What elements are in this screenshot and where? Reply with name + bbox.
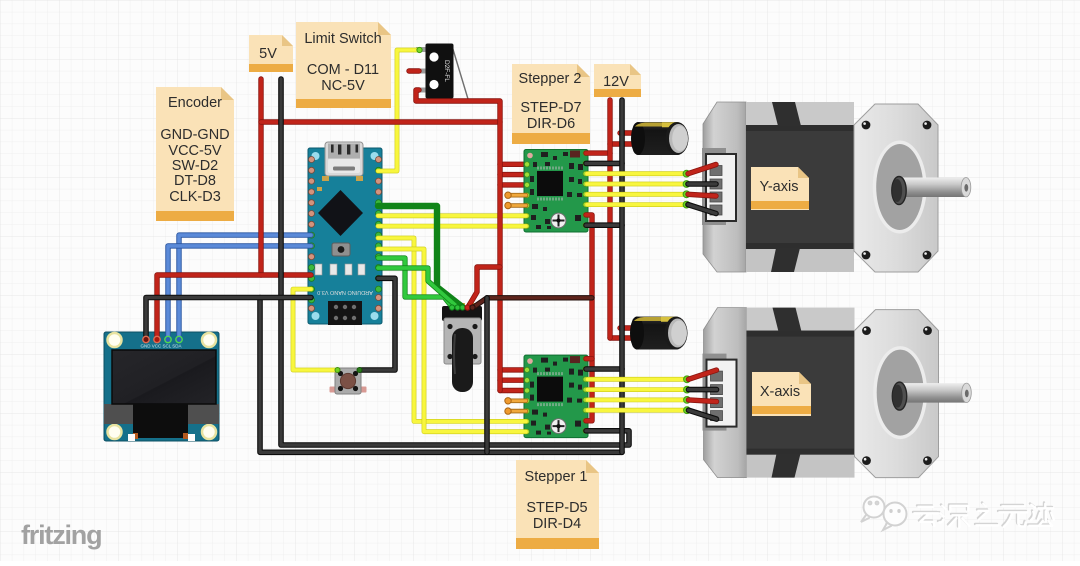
- driver chip: [537, 171, 563, 196]
- WeChat watermark icon: [861, 497, 907, 531]
- wire yellow nano D5 to driver U3 STEP: [378, 238, 526, 421]
- svg-text:COM - D11: COM - D11: [307, 62, 379, 78]
- trimpot on driver: [551, 213, 566, 228]
- motor body top face: [746, 102, 854, 126]
- wire red encoder VCC to bus: [468, 267, 501, 308]
- svg-text:DIR-D6: DIR-D6: [527, 116, 575, 132]
- svg-text:ARDUINO NANO V3.0: ARDUINO NANO V3.0: [317, 289, 373, 295]
- svg-text:DIR-D4: DIR-D4: [533, 516, 581, 532]
- rotary encoder ENC1: [442, 303, 482, 392]
- wire black nano to push button SW2: [360, 278, 395, 370]
- note label X-axis: [752, 372, 811, 416]
- wire black OLED GND branch bottom bus: [260, 298, 622, 453]
- wire end caps at push button corners: [335, 368, 340, 373]
- shaft end: [961, 178, 971, 197]
- note label Stepper 1: [516, 460, 599, 549]
- wire red driver U2 VMOT to 12V rail: [586, 152, 610, 154]
- electrolytic capacitor C2: [630, 317, 688, 350]
- MS jumper wires on driver: [508, 195, 526, 205]
- OLED display module: [104, 332, 219, 441]
- wire yellow nano D4 to driver U3 DIR: [378, 249, 526, 432]
- pin headers of U1 (left and right columns): [309, 157, 382, 312]
- driver pin pads: [525, 151, 589, 229]
- motor connector block: [706, 154, 736, 221]
- wire red driver U3 VMOT stub: [586, 358, 592, 360]
- note label Limit Switch: [296, 22, 391, 108]
- note label Encoder: [156, 87, 234, 221]
- ICSP header on U1: [328, 301, 362, 325]
- wire red 5V feed vertical: [260, 79, 262, 275]
- wire black encoder GND drop to bus: [486, 298, 488, 453]
- wire yellow motor phase leads from driver: [587, 174, 687, 205]
- wire red driver U2 to driver U3 link: [586, 215, 592, 421]
- svg-text:CLK-D3: CLK-D3: [169, 189, 221, 205]
- electrolytic capacitor C1 leads: [610, 133, 638, 144]
- top notch: [772, 102, 801, 126]
- svg-text:GND-GND: GND-GND: [160, 127, 229, 143]
- motor rear housing: [703, 102, 746, 272]
- wire I2C SCL (blue, OLED to nano A5): [168, 246, 311, 336]
- wire black 12V GND rail vertical: [621, 100, 623, 452]
- wire red limit switch NO down the 5V bus to drivers: [416, 90, 500, 391]
- wire yellow nano D7 to driver U2 STEP: [378, 215, 526, 217]
- wire green nano D8 to encoder DT: [378, 258, 452, 307]
- wire red stub at limit switch NC: [409, 70, 419, 72]
- shaft: [899, 178, 966, 198]
- reset button on U1: [332, 243, 350, 256]
- wire black driver U2 lower GND to rail: [586, 224, 622, 226]
- svg-text:VCC-5V: VCC-5V: [168, 143, 222, 159]
- note label 5V: [249, 35, 293, 72]
- wire black driver U2 GND to 12V GND rail: [586, 162, 622, 164]
- wire green nano D2 to encoder SW (thick): [378, 206, 463, 307]
- svg-text:Y-axis: Y-axis: [760, 179, 799, 195]
- wire red 12V rail vertical: [609, 100, 611, 338]
- bottom notch: [771, 248, 800, 272]
- connector recess: [702, 148, 726, 225]
- motor body bottom face: [746, 248, 854, 272]
- wire end caps at encoder pins: [449, 305, 475, 310]
- wire red OLED VCC to nano 5V: [157, 275, 311, 336]
- small SMD parts on U1: [315, 264, 365, 275]
- electrolytic capacitor C1: [631, 122, 689, 155]
- stepper motor M1 (Y-axis): [587, 102, 971, 272]
- wire yellow nano pin to push button SW2: [293, 289, 337, 370]
- svg-text:5V: 5V: [259, 46, 277, 62]
- wire maroon encoder GND link: [473, 298, 593, 308]
- note label 12V: [594, 64, 641, 97]
- svg-text:Encoder: Encoder: [168, 95, 222, 111]
- stepper motor M2 (X-axis): [588, 308, 972, 478]
- wire end caps at OLED pins: [143, 336, 182, 342]
- wire red 5V rail top cross to bus: [261, 121, 500, 123]
- svg-text:D2F-FL: D2F-FL: [443, 60, 450, 82]
- screw holes: [862, 121, 932, 260]
- motor dark center band: [746, 125, 854, 249]
- wire red stubs from 5V/12V bus to driver left pins: [500, 164, 525, 185]
- limit switch SW1 (D2F-FL): [416, 44, 468, 100]
- wire yellow nano D6 to driver U2 DIR: [378, 225, 526, 227]
- wire black driver U3 GND to rail: [586, 368, 622, 370]
- push button SW2: [330, 368, 367, 394]
- svg-text:DT-D8: DT-D8: [174, 173, 216, 189]
- mini-USB connector on U1: [325, 142, 363, 176]
- motor pigtail wires (red/black): [688, 165, 716, 174]
- note label Y-axis: [751, 167, 809, 210]
- WeChat watermark text (云深之无迹): [913, 503, 1053, 527]
- wire black OLED GND to nano GND: [146, 298, 311, 337]
- wire yellow limit-switch COM to nano D11: [378, 50, 419, 171]
- svg-text:STEP-D7: STEP-D7: [520, 100, 581, 116]
- wire end cap at limit switch COM: [417, 47, 422, 52]
- stepper driver U2 (Stepper 2, top) is the template itself; driver U3 below: [500, 355, 588, 438]
- svg-text:Stepper 2: Stepper 2: [519, 71, 582, 87]
- green wire tips: [683, 170, 690, 208]
- electrolytic capacitor C2 leads: [610, 328, 638, 338]
- svg-text:12V: 12V: [603, 74, 629, 90]
- hub: [892, 177, 906, 205]
- note label Stepper 2: [512, 64, 590, 144]
- wire black GND feed from 5V note to bottom bus: [281, 79, 629, 445]
- svg-text:STEP-D5: STEP-D5: [526, 500, 587, 516]
- svg-text:SW-D2: SW-D2: [172, 158, 218, 174]
- rotor circle: [873, 141, 927, 234]
- wire green nano D3 to encoder CLK: [378, 268, 458, 307]
- svg-text:Stepper 1: Stepper 1: [525, 469, 588, 485]
- motor face plate: [854, 104, 938, 272]
- stepper driver module A4988 (template): [500, 150, 588, 233]
- svg-text:fritzing: fritzing: [21, 520, 101, 550]
- svg-text:X-axis: X-axis: [760, 384, 800, 400]
- ATmega chip on U1 (diamond): [318, 190, 363, 236]
- svg-text:Limit Switch: Limit Switch: [304, 31, 381, 47]
- wire I2C SDA (blue, OLED to nano A4): [179, 235, 311, 336]
- microcontroller U1 Arduino Nano board: [308, 148, 382, 324]
- svg-text:NC-5V: NC-5V: [321, 78, 365, 94]
- svg-text:GND VCC SCL SDA: GND VCC SCL SDA: [140, 344, 181, 349]
